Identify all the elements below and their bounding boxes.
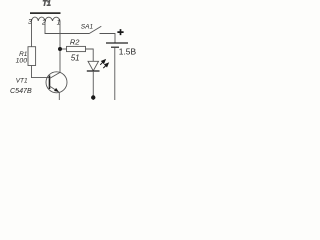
wire tap2 to switch (45, 21, 90, 34)
wire tap3 to R1 (31, 21, 33, 47)
svg-text:VT1: VT1 (16, 78, 28, 85)
resistor R1 (28, 47, 36, 66)
battery top plate (106, 42, 128, 44)
wire LED to bottom (92, 71, 94, 100)
wire R1 to base (32, 66, 50, 78)
svg-text:100: 100 (16, 57, 28, 64)
LED arrows (100, 60, 105, 65)
transformer core (30, 12, 61, 14)
battery GB1 plus (117, 29, 123, 35)
LED VD1 (88, 61, 99, 71)
svg-text:R2: R2 (70, 37, 80, 46)
svg-text:T1: T1 (43, 0, 51, 8)
svg-text:1.5B: 1.5B (119, 47, 137, 57)
wire battery minus to bottom (114, 47, 116, 100)
wire R2 to LED (86, 49, 94, 61)
svg-text:SA1: SA1 (81, 24, 94, 31)
svg-text:51: 51 (71, 54, 80, 63)
wire emitter to bottom (58, 92, 60, 100)
transistor VT1 circle (46, 72, 67, 93)
transformer winding (32, 17, 61, 21)
node bottom junction (91, 95, 95, 99)
transistor collector slant (50, 72, 61, 78)
transistor base bar (49, 76, 51, 90)
node collector junction (58, 47, 62, 51)
svg-text:C547B: C547B (10, 87, 32, 95)
wire tap1 to collector node (59, 21, 61, 72)
battery bottom plate (111, 46, 119, 48)
resistor R2 (67, 46, 86, 51)
transistor emitter slant with arrow (50, 86, 60, 92)
wire switch to battery (100, 34, 116, 44)
